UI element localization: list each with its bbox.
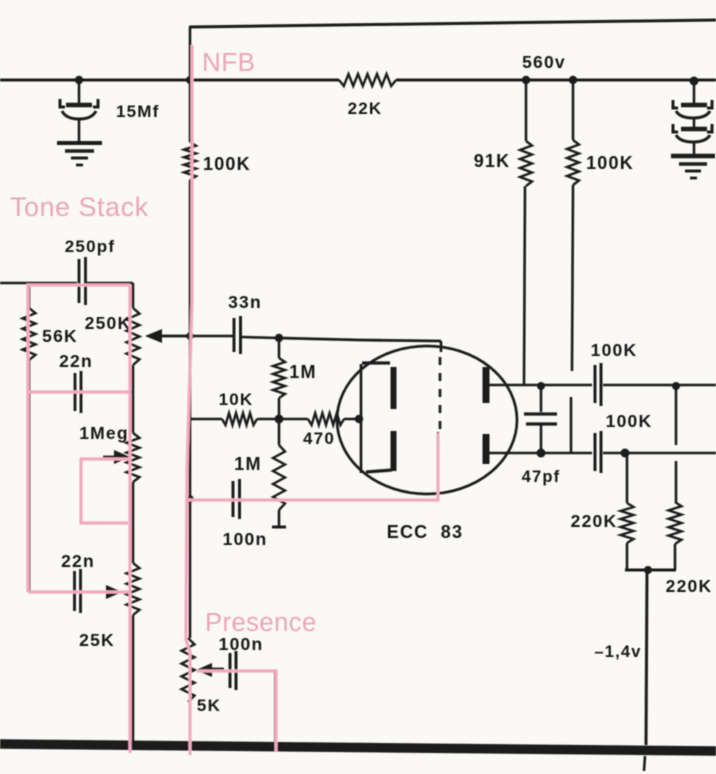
wire top border line bbox=[189, 20, 716, 27]
value label 47pf bbox=[522, 468, 561, 486]
svg-text:Presence: Presence bbox=[205, 609, 317, 637]
capacitor C 100n NFB bbox=[233, 479, 240, 519]
svg-text:ECC 83: ECC 83 bbox=[387, 522, 463, 542]
part label ECC 83 bbox=[387, 522, 463, 542]
resistor R 1M upper bbox=[273, 338, 285, 419]
node junction bias bbox=[644, 566, 652, 574]
node junction NFB rail bbox=[186, 76, 194, 84]
value label 220K right bbox=[666, 576, 713, 596]
wire 220K bottom join bbox=[625, 569, 676, 572]
value label 22n lower bbox=[61, 551, 95, 571]
tube grid 2 dashed bbox=[440, 341, 441, 430]
wiper arrow 25K bbox=[97, 585, 122, 599]
svg-text:–1,4v: –1,4v bbox=[594, 643, 641, 661]
node junction tone output on NFB line bbox=[186, 332, 194, 340]
tube grid 1 bbox=[360, 364, 363, 473]
wire NFB 100n run bbox=[190, 432, 438, 500]
svg-text:100K: 100K bbox=[606, 411, 653, 431]
svg-text:100n: 100n bbox=[223, 529, 268, 549]
tube anode 1 bbox=[362, 363, 394, 409]
svg-text:560v: 560v bbox=[522, 52, 566, 72]
value label 33n bbox=[228, 292, 262, 312]
resistor R 100K NFB bbox=[184, 142, 196, 180]
resistor R 56K left branch bbox=[23, 283, 36, 592]
resistor R 22K bbox=[339, 74, 396, 86]
node label Tone Stack bbox=[10, 192, 149, 222]
svg-text:100K: 100K bbox=[586, 153, 634, 173]
svg-text:5K: 5K bbox=[197, 696, 221, 715]
wire bias down bbox=[646, 570, 647, 745]
wire tone bottom rung bbox=[29, 591, 133, 594]
potentiometer R 250K treble bbox=[127, 283, 140, 433]
wire NFB vertical mid bbox=[189, 180, 192, 638]
node junction 91K tap bbox=[522, 76, 530, 84]
voltage label -1,4v bbox=[594, 643, 641, 661]
node junction 100n tap bbox=[186, 495, 194, 503]
op-amp — tube envelope V1 ECC83 bbox=[337, 346, 517, 494]
node pink 1Meg wiper loop bbox=[81, 459, 128, 523]
power label 560v bbox=[522, 52, 566, 72]
wire tone output to grid bbox=[161, 336, 441, 341]
wiper arrow 1Meg bbox=[103, 450, 130, 464]
svg-text:47pf: 47pf bbox=[522, 468, 561, 486]
value label 22K bbox=[348, 99, 383, 118]
potentiometer R 5K presence bbox=[182, 638, 195, 746]
ground GND left bbox=[57, 143, 102, 165]
resistor R 91K bbox=[520, 80, 532, 385]
svg-text:1M: 1M bbox=[234, 454, 261, 474]
value label 100K anode bbox=[586, 153, 634, 173]
svg-text:250K: 250K bbox=[85, 313, 132, 333]
value label 1M lower bbox=[234, 454, 261, 474]
value label 220K left bbox=[571, 511, 618, 531]
node junction grid1 470 bbox=[355, 415, 363, 423]
resistor R 220K left bbox=[621, 453, 634, 570]
svg-text:220K: 220K bbox=[666, 576, 713, 596]
value label 100n NFB bbox=[223, 529, 268, 549]
tube cathode 2 bbox=[483, 434, 490, 464]
wire pink NFB trace bbox=[186, 45, 192, 755]
value label 1Meg bbox=[79, 423, 129, 443]
wire anode 2 output bbox=[489, 384, 716, 387]
value label 15Mf bbox=[116, 102, 160, 121]
svg-text:91K: 91K bbox=[474, 151, 511, 171]
wiper arrow 250K bbox=[145, 329, 191, 343]
svg-text:1M: 1M bbox=[289, 362, 316, 382]
svg-text:1Meg: 1Meg bbox=[79, 423, 129, 443]
value label 10K bbox=[219, 390, 254, 409]
node junction 47pf top bbox=[537, 382, 545, 390]
node junction 220K left top bbox=[621, 449, 630, 458]
svg-text:470: 470 bbox=[303, 429, 335, 448]
wire cathode 2 output bbox=[489, 452, 716, 455]
capacitor C 47pf bbox=[524, 387, 557, 451]
svg-text:NFB: NFB bbox=[202, 47, 256, 77]
resistor R 10K bbox=[190, 413, 279, 425]
wire tone stack input bbox=[0, 282, 133, 285]
svg-text:22n: 22n bbox=[59, 351, 93, 371]
capacitor C 15Mf electrolytic bbox=[60, 80, 98, 142]
value label 5K bbox=[197, 696, 221, 715]
value label 250K bbox=[85, 313, 132, 333]
node junction grid divider mid bbox=[275, 415, 284, 424]
wire tone mid rung bbox=[29, 391, 133, 394]
value label 22n upper bbox=[59, 351, 93, 371]
node label NFB bbox=[202, 47, 256, 77]
tube cathode 1 bbox=[366, 431, 394, 472]
node junction 220K right top bbox=[672, 382, 680, 390]
capacitor C 100K coupling upper bbox=[595, 363, 601, 406]
svg-text:10K: 10K bbox=[219, 390, 254, 409]
svg-text:25K: 25K bbox=[79, 630, 115, 650]
potentiometer R 25K bass cut bbox=[127, 563, 140, 746]
svg-text:100n: 100n bbox=[219, 634, 264, 654]
node pink tone stack outline bbox=[28, 285, 130, 753]
wire ground bus bottom bbox=[0, 744, 716, 771]
capacitor C 22n upper bbox=[75, 371, 81, 413]
value label 91K bbox=[474, 151, 511, 171]
value label 1M upper bbox=[289, 362, 316, 382]
svg-text:56K: 56K bbox=[42, 326, 78, 346]
svg-text:250pf: 250pf bbox=[65, 237, 115, 256]
svg-text:100K: 100K bbox=[591, 340, 638, 360]
wire pink presence NFB path bbox=[186, 433, 438, 500]
value label 470 bbox=[303, 429, 335, 448]
resistor R 470 cathode bbox=[279, 413, 356, 425]
potentiometer R 1Meg bass bbox=[127, 433, 140, 563]
wire presence cap to ground bbox=[237, 671, 275, 745]
svg-text:22K: 22K bbox=[348, 99, 383, 118]
capacitor C 250pf bbox=[79, 257, 86, 305]
svg-text:33n: 33n bbox=[228, 292, 262, 312]
node junction grid divider top bbox=[275, 334, 283, 342]
value label 25K bbox=[79, 630, 115, 650]
svg-text:220K: 220K bbox=[571, 511, 618, 531]
capacitor C 22n lower bbox=[75, 569, 81, 613]
value label 56K bbox=[42, 326, 78, 346]
node junction right caps tap bbox=[690, 77, 699, 86]
ground GND right bbox=[671, 156, 715, 178]
value label 100K NFB bbox=[203, 154, 251, 174]
tube anode 2 bbox=[483, 367, 490, 403]
node junction 15Mf tap bbox=[75, 76, 83, 84]
wiper arrow 5K presence bbox=[196, 663, 224, 677]
resistor R 1M lower bbox=[272, 419, 286, 527]
capacitor C 100n presence bbox=[230, 651, 236, 690]
value label 100K lower bbox=[606, 411, 653, 431]
resistor R 220K right bbox=[669, 386, 682, 570]
wire main B+ rail bbox=[0, 79, 716, 82]
svg-text:22n: 22n bbox=[61, 551, 95, 571]
capacitor C 100K coupling lower bbox=[595, 431, 601, 473]
node junction 100K tap bbox=[569, 76, 577, 84]
wire NFB vertical from top line bbox=[189, 27, 192, 142]
wire pink presence wiper path bbox=[197, 671, 276, 752]
value label 100K upper bbox=[591, 340, 638, 360]
svg-text:Tone Stack: Tone Stack bbox=[10, 192, 149, 222]
value label 100n presence bbox=[219, 634, 264, 654]
svg-text:100K: 100K bbox=[203, 154, 251, 174]
svg-text:15Mf: 15Mf bbox=[116, 102, 160, 121]
capacitor C 33n bbox=[234, 316, 241, 354]
capacitor C electrolytic pair right bbox=[673, 81, 712, 156]
node junction 47pf bottom bbox=[537, 449, 546, 458]
resistor R 100K anode bbox=[567, 80, 579, 453]
value label 250pf bbox=[65, 237, 115, 256]
node label Presence bbox=[205, 609, 317, 637]
